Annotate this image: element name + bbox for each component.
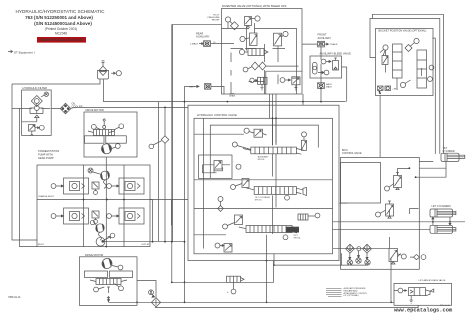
drive motor 2 box [80,253,138,305]
svg-text:BELT: BELT [189,87,195,89]
svg-text:GEAR PUMP: GEAR PUMP [38,156,54,160]
pump unit A [51,178,88,194]
rear auxiliary connector [190,32,222,47]
svg-text:DRIVE MOTOR: DRIVE MOTOR [85,253,103,257]
bleed orifice pair [243,62,266,72]
aux detent valve right [301,132,306,151]
tilt spool [247,187,307,202]
gauge circle right [119,124,124,129]
svg-text:CHARGE INLET: CHARGE INLET [38,195,55,198]
breather [98,61,109,79]
diamond top [405,45,412,52]
solenoid valve left [240,33,257,46]
svg-text:ST Equipment I: ST Equipment I [14,51,35,55]
main relief sub-box [199,155,233,178]
svg-text:SPOOL: SPOOL [258,159,266,161]
diverter spool [239,49,268,56]
svg-text:DRIVE MOTOR: DRIVE MOTOR [86,108,104,112]
male connector below [318,83,325,89]
spring pin top [103,119,106,126]
bleed gauge bottom [324,70,329,75]
spool [96,279,121,285]
wire: check valve line [172,261,274,283]
svg-text:T-MALE: T-MALE [190,43,198,46]
wire filter feed [12,107,22,109]
motor circle [102,144,112,154]
wire: tank return via filters [274,253,368,265]
bics wires [390,169,410,249]
check valve on bottom line [227,276,245,294]
check valve small [298,213,320,220]
svg-text:DIVERTER VALVE (OPTIONAL) WITH: DIVERTER VALVE (OPTIONAL) WITH BLEED OFF [222,4,287,8]
wires [321,47,347,102]
svg-text:AUXILIARY BLEED VALVE: AUXILIARY BLEED VALVE [320,52,352,56]
pilot sub-box [266,71,303,94]
shuttle valve spool [94,130,115,136]
main gear pump [96,233,115,246]
motor case rects [85,136,105,143]
BICS control valve box [298,149,426,269]
tandem internal wires [84,157,125,247]
bics solenoid valve [389,249,406,265]
svg-text:OUTLET: OUTLET [141,244,150,246]
svg-text:www.epcatalogs.com: www.epcatalogs.com [394,308,453,314]
svg-text:WWW.EPCATALOGS.COM: WWW.EPCATALOGS.COM [40,38,82,42]
svg-text:HYDRAULIC FILTER: HYDRAULIC FILTER [23,86,48,90]
tandem piston pump box [37,149,150,247]
svg-text:T-MALE: T-MALE [330,43,338,46]
svg-text:(1): (1) [213,42,216,44]
right small valve [280,77,300,91]
legend text lines [344,287,369,297]
front auxiliary connector [302,33,338,47]
wire: tilt feeds [419,162,446,169]
bics left sub-box [341,163,381,204]
vertical trunk wires center [270,94,277,208]
pump unit D [107,208,144,224]
svg-text:CYLINDER: CYLINDER [443,150,455,153]
pump unit C [51,208,88,224]
auxiliary spool [232,142,303,161]
bottom pin [107,287,110,302]
pilot relief diamond [231,22,239,30]
motor case rects [85,271,108,278]
wire: lift cylinder runs [333,203,466,229]
bucket position valve container wires to tilt cylinder [370,14,443,154]
hydraulic filter box [22,86,52,136]
wire: lift spool down [267,235,392,302]
relief diamond right of drive motor [149,136,169,149]
wire charge ext vertical [150,200,153,242]
wire: hcv left feeds [150,102,188,241]
bucket position valve box [376,29,434,96]
gear pump top [88,168,110,188]
solenoid valve right [274,31,289,46]
wire filter to cooler then long run right [51,107,188,108]
svg-text:BUCKET POSITION VALVE (OPTIONA: BUCKET POSITION VALVE (OPTIONAL) [379,29,427,33]
red banner [37,37,86,43]
solenoid left [383,45,388,50]
wire dm2 case drain to diamond [137,281,156,298]
ST equipment note [14,51,35,55]
filter bypass circle [44,92,48,96]
float detent valve [215,243,232,252]
svg-text:(S/N 512450001and Above): (S/N 512450001and Above) [34,21,92,26]
svg-text:HYDRAULIC CONTROL VALVE: HYDRAULIC CONTROL VALVE [197,113,237,117]
svg-text:TANDEM PISTON: TANDEM PISTON [38,149,59,153]
port relief 1 [385,173,402,192]
check valve [35,115,39,118]
breather gauge circle [116,71,121,76]
gauge circle motor [115,144,120,149]
case drain diamond bottom [149,290,161,307]
svg-text:+: + [227,290,229,294]
charge check valves mid column [92,182,99,224]
wire left trunk verticals [171,24,173,282]
svg-text:MALE: MALE [326,86,332,89]
port relief 2 [376,201,394,218]
motor circle [102,259,112,269]
auxiliary bleed valve box [310,47,351,102]
wire diverter to left vertical [173,24,222,242]
gear pump bottom [90,220,104,240]
wire gear pump output run right [103,241,185,243]
bleed gauge top [321,59,326,64]
svg-text:RELIEF: RELIEF [212,20,220,22]
svg-text:LIFT ARM BY-PASS VALVE: LIFT ARM BY-PASS VALVE [419,279,446,282]
hcv internal long wires [194,134,333,235]
wire left frame vertical [12,84,37,240]
filter circle gauge [34,106,39,111]
wire breather center leg down then right (charge line) [104,79,346,101]
lift pilot valve [223,215,243,229]
svg-text:KIT (OPTIONAL): KIT (OPTIONAL) [344,294,359,297]
aux spool loop wire [210,125,318,152]
shutoff X valve [410,255,420,260]
tilt cylinder [416,147,465,177]
bottom connectors [378,86,384,91]
twin filters [333,244,389,265]
aux pilot cluster [244,128,249,133]
tilt pilot valve [231,179,250,190]
svg-text:INLET: INLET [38,244,45,246]
svg-text:HYDRAULIC/HYDROSTATIC SCHEMATI: HYDRAULIC/HYDROSTATIC SCHEMATIC [16,9,106,14]
check valve bottom [250,77,267,90]
pilot relief circle [225,17,230,22]
svg-text:763 (S/N 512250001 and Above): 763 (S/N 512250001 and Above) [25,15,93,20]
lift arm by-pass valve [394,279,452,305]
lift spool [239,226,302,240]
svg-text:7989-04-1A: 7989-04-1A [8,296,21,299]
svg-text:+ BKT: + BKT [392,89,398,91]
wire belt connector line [185,85,225,94]
relief valve 1 [245,16,261,29]
drain valve [29,125,36,132]
wire breather left leg to frame [12,79,100,84]
wire diamond feed down [164,107,166,241]
internal wires [222,22,297,94]
svg-text:(Printed October 2001): (Printed October 2001) [45,27,77,31]
svg-text:SPOOL: SPOOL [255,199,263,201]
drive motor 1 box [84,108,137,157]
svg-text:AUXILIARY: AUXILIARY [196,35,210,39]
filter diamond [31,96,42,107]
pump unit B [107,178,144,194]
wire: main pressure bottom run [109,301,395,303]
bleed capsule [313,63,318,75]
svg-text:PUMP WITH: PUMP WITH [38,152,53,156]
wires [386,50,422,90]
wire: tank bottom run [155,306,418,308]
diverter valve box [207,4,302,94]
title block [16,9,106,36]
svg-text:SPOOL: SPOOL [294,237,302,239]
orifice circle + diamond [218,197,223,202]
hydraulic control valve box [188,105,339,260]
svg-text:LIFT CYLINDERS: LIFT CYLINDERS [432,205,452,208]
svg-text:AUXILIARY: AUXILIARY [318,36,332,40]
svg-text:CONTROL VALVE: CONTROL VALVE [342,152,362,155]
oil cooler [60,102,82,114]
svg-text:MC2046: MC2046 [55,32,67,36]
gauge circles [94,287,99,292]
gauge circle left [91,124,96,129]
svg-text:DRAIN: DRAIN [229,95,236,98]
wire left inner vertical [20,108,38,246]
bleed valve square [333,61,339,71]
spool 1 [393,44,403,78]
lift cylinders [430,205,456,233]
spool 2 [417,50,427,88]
